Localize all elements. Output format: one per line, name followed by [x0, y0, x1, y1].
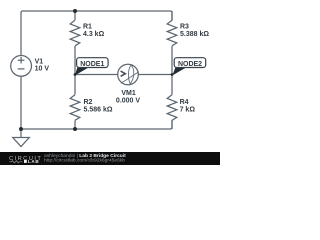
footer CircuitLab logo [9, 156, 42, 164]
svg-text:LAB: LAB [28, 159, 40, 164]
svg-text:http://circuitlab.com/c/b92k6g: http://circuitlab.com/c/b92k6gr45e6kb [44, 157, 125, 163]
svg-text:7 kΩ: 7 kΩ [180, 106, 196, 113]
wire R4 to bottom rail [171, 121, 173, 130]
wire top rail [21, 11, 172, 56]
wire R2 to bottom rail [74, 121, 76, 130]
resistor R2 [70, 95, 113, 121]
ground [13, 129, 30, 147]
resistor R3 [167, 20, 209, 46]
wire right branch upper lead [171, 11, 173, 20]
wire middle branch upper lead [74, 11, 76, 20]
junction node A [74, 73, 77, 76]
wire R1 to node A [74, 46, 76, 95]
voltage source V1 [11, 56, 50, 77]
wire node A to voltmeter [75, 74, 118, 76]
junction node B [171, 73, 174, 76]
footer bar [0, 152, 220, 165]
svg-text:V1: V1 [35, 59, 44, 66]
svg-text:VM1: VM1 [121, 90, 136, 97]
wire R3 to node B [171, 46, 173, 95]
svg-text:5.586 kΩ: 5.586 kΩ [84, 106, 113, 113]
svg-text:R1: R1 [83, 23, 92, 30]
resistor R4 [167, 95, 195, 121]
wire bottom rail [21, 120, 172, 129]
junction bottom middle [73, 127, 77, 131]
junction top middle [73, 9, 77, 13]
wire voltmeter to node B [138, 74, 172, 76]
svg-text:R2: R2 [84, 99, 93, 106]
svg-text:R3: R3 [180, 23, 189, 30]
svg-text:NODE2: NODE2 [178, 61, 202, 68]
junction bottom left [19, 127, 23, 131]
svg-text:5.388 kΩ: 5.388 kΩ [180, 31, 209, 38]
node NODE1 flag [75, 58, 108, 76]
resistor R1 [70, 20, 104, 46]
svg-text:R4: R4 [180, 99, 189, 106]
svg-text:0.000 V: 0.000 V [116, 97, 140, 104]
svg-text:4.3 kΩ: 4.3 kΩ [83, 31, 105, 38]
svg-text:NODE1: NODE1 [80, 61, 104, 68]
footer caption text [44, 153, 126, 163]
svg-text:10 V: 10 V [35, 66, 50, 73]
node NODE2 flag [172, 58, 205, 76]
wire left rail lower [20, 76, 22, 129]
voltmeter VM1 [116, 64, 140, 104]
